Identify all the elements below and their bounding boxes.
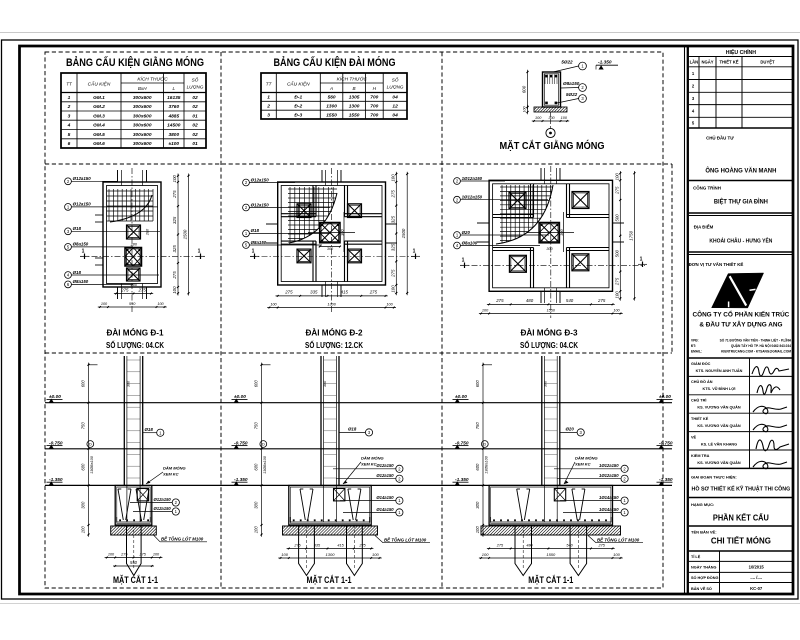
- plan D-3 bottom overall dim: [479, 313, 623, 315]
- svg-text:100: 100: [157, 302, 164, 306]
- svg-text:BẢNG CẤU KIỆN ĐÀI MÓNG: BẢNG CẤU KIỆN ĐÀI MÓNG: [274, 56, 396, 69]
- svg-text:275: 275: [172, 190, 177, 199]
- svg-text:VPĐ:: VPĐ:: [691, 339, 699, 343]
- giang mong bottom dim 100 300 100: [532, 120, 569, 122]
- svg-text:700: 700: [370, 95, 378, 101]
- svg-text:GM.6: GM.6: [93, 141, 105, 147]
- svg-text:100: 100: [153, 552, 160, 556]
- svg-text:100: 100: [561, 116, 568, 120]
- svg-text:275: 275: [614, 186, 619, 195]
- plan D-1 left beam stubs: [95, 214, 103, 216]
- svg-text:GM.2: GM.2: [93, 104, 105, 110]
- svg-text:300: 300: [475, 501, 480, 509]
- svg-text:Ø18: Ø18: [251, 228, 260, 233]
- section left dim chain: [88, 363, 90, 537]
- giang mong axis bubble: [546, 128, 555, 137]
- section 3 callout 1d12a150 b: [557, 478, 621, 480]
- plan D-2 axis lines: [331, 168, 333, 312]
- svg-text:TÊN BẢN VẼ:: TÊN BẢN VẼ:: [691, 530, 717, 535]
- svg-text:KÍCH THƯỚC: KÍCH THƯỚC: [137, 76, 168, 83]
- svg-text:01: 01: [192, 113, 198, 119]
- section 1 callout d18: [143, 432, 157, 434]
- svg-text:275: 275: [293, 543, 301, 547]
- section 3 callout 1d14a150 b: [563, 511, 621, 513]
- plan D-1 beam stubs bottom: [117, 287, 119, 299]
- svg-text:550: 550: [130, 560, 138, 565]
- section left dim chain: [261, 363, 263, 537]
- section giang mong beam stub: [554, 489, 565, 501]
- section 3 callout 1d14a150 a: [560, 500, 621, 502]
- svg-text:5Ø22: 5Ø22: [566, 92, 578, 97]
- svg-text:4: 4: [67, 123, 71, 129]
- svg-text:ĐT:: ĐT:: [691, 344, 696, 348]
- svg-text:540: 540: [566, 543, 573, 547]
- svg-text:Ø14a150: Ø14a150: [376, 507, 394, 512]
- svg-text:500: 500: [614, 249, 619, 257]
- plan D-1 bottom overall dim: [98, 306, 167, 308]
- svg-text:CHI TIẾT MÓNG: CHI TIẾT MÓNG: [711, 535, 771, 546]
- svg-text:100: 100: [172, 175, 177, 183]
- svg-text:DUYỆT: DUYỆT: [760, 60, 775, 65]
- svg-text:BÊ TÔNG LÓT M100: BÊ TÔNG LÓT M100: [384, 537, 427, 542]
- callout 2 stirrup d8a150: [561, 87, 579, 90]
- svg-text:MẶT CẮT 1-1: MẶT CẮT 1-1: [307, 575, 352, 585]
- svg-text:540: 540: [566, 298, 574, 303]
- svg-text:A: A: [329, 86, 333, 91]
- plan D-1 callouts: [65, 178, 72, 185]
- svg-text:D: D: [89, 442, 92, 447]
- svg-text:1Ø12a150: 1Ø12a150: [462, 195, 483, 200]
- svg-text:16135: 16135: [167, 95, 181, 101]
- svg-text:300: 300: [546, 247, 553, 251]
- svg-text:500: 500: [614, 214, 619, 222]
- svg-text:Ø14a150: Ø14a150: [376, 495, 394, 500]
- dashed separator horizontal 2: [45, 352, 672, 354]
- svg-text:3760: 3760: [168, 104, 179, 110]
- svg-text:700: 700: [370, 104, 378, 110]
- svg-text:1500: 1500: [183, 229, 188, 239]
- svg-text:300x600: 300x600: [133, 132, 152, 138]
- section piles: [127, 525, 142, 576]
- svg-text:2: 2: [67, 104, 71, 110]
- section column: [320, 356, 322, 486]
- svg-text:MẶT CẮT GIẰNG MÓNG: MẶT CẮT GIẰNG MÓNG: [500, 139, 605, 152]
- svg-text:600: 600: [254, 380, 259, 388]
- svg-text:13Ø8a100: 13Ø8a100: [485, 455, 489, 474]
- svg-text:01: 01: [192, 141, 198, 147]
- plan D-2 column square: [320, 223, 340, 243]
- svg-text:DẦM MÓNG: DẦM MÓNG: [575, 456, 598, 461]
- page bottom separator line: [0, 603, 800, 605]
- svg-text:415: 415: [337, 543, 344, 547]
- section pad bottom rebar: [491, 521, 611, 523]
- svg-text:600: 600: [254, 463, 259, 471]
- svg-text:100: 100: [390, 174, 395, 182]
- svg-text:1: 1: [68, 95, 71, 101]
- svg-text:480: 480: [526, 298, 534, 303]
- svg-text:1550: 1550: [546, 552, 556, 557]
- svg-text:NGÀY: NGÀY: [701, 60, 713, 65]
- section giang mong beam stub: [137, 489, 148, 501]
- dashed drawing frame: [45, 52, 663, 588]
- plan D-2 bottom overall dim: [267, 307, 396, 309]
- svg-text:100: 100: [613, 552, 620, 557]
- svg-text:KS. VƯƠNG VĂN QUÂN: KS. VƯƠNG VĂN QUÂN: [697, 423, 741, 428]
- plan D-2 callouts: [243, 179, 250, 186]
- svg-text:Đ-3: Đ-3: [294, 112, 302, 118]
- svg-text:300: 300: [560, 229, 564, 236]
- svg-text:BẢN VẼ SỐ: BẢN VẼ SỐ: [691, 586, 712, 591]
- svg-text:600: 600: [475, 380, 480, 388]
- section 2 callout d18: [339, 431, 365, 433]
- plan D-2 corner room brackets: [312, 185, 314, 217]
- svg-text:1300: 1300: [326, 104, 337, 110]
- section piles: [299, 525, 315, 576]
- section 1 bottom dims: [105, 557, 163, 559]
- plan dai mong D-3 pad outline: [489, 180, 612, 291]
- svg-text:3: 3: [68, 113, 71, 119]
- svg-text:Ø8a150: Ø8a150: [73, 279, 89, 284]
- svg-text:TỈ LỆ: TỈ LỆ: [691, 554, 701, 559]
- svg-text:275: 275: [496, 543, 504, 547]
- section pad: [489, 486, 612, 526]
- svg-text:LƯỢNG: LƯỢNG: [387, 85, 404, 90]
- plan D-3 callouts: [454, 178, 461, 185]
- svg-text:XEM KC: XEM KC: [162, 472, 179, 477]
- svg-text:PHẦN KẾT CẤU: PHẦN KẾT CẤU: [713, 513, 769, 523]
- svg-text:100: 100: [172, 286, 177, 294]
- svg-text:300x600: 300x600: [133, 104, 152, 110]
- svg-text:280: 280: [130, 243, 138, 247]
- svg-text:1750: 1750: [628, 230, 633, 240]
- svg-text:HẠNG MỤC:: HẠNG MỤC:: [691, 502, 714, 507]
- svg-text:100: 100: [475, 526, 480, 534]
- svg-text:275: 275: [139, 552, 147, 556]
- svg-text:300: 300: [544, 380, 548, 387]
- svg-text:275: 275: [358, 543, 366, 547]
- svg-text:MẶT CẮT 1-1: MẶT CẮT 1-1: [113, 575, 158, 585]
- svg-text:12: 12: [392, 104, 398, 110]
- svg-text:750: 750: [254, 422, 259, 430]
- svg-text:560: 560: [328, 95, 336, 101]
- svg-text:Ø20: Ø20: [462, 230, 471, 235]
- svg-text:100: 100: [81, 526, 86, 534]
- plan D-2 beam stubs: [321, 170, 323, 182]
- svg-text:THIẾT KẾ: THIẾT KẾ: [719, 60, 738, 65]
- plan dai mong D-1 pad outline: [103, 182, 161, 287]
- svg-text:100: 100: [372, 552, 379, 557]
- svg-text:1305: 1305: [349, 95, 360, 101]
- svg-text:325: 325: [172, 245, 177, 253]
- svg-text:Ø12a150: Ø12a150: [154, 497, 172, 502]
- svg-text:1Ø14a150: 1Ø14a150: [599, 495, 619, 500]
- svg-text:100: 100: [482, 308, 489, 312]
- svg-text:Ø12a150: Ø12a150: [73, 176, 92, 181]
- svg-text:LƯỢNG: LƯỢNG: [187, 85, 204, 90]
- svg-text:NGÀY THÁNG: NGÀY THÁNG: [691, 565, 717, 570]
- section pad: [115, 486, 152, 526]
- section giang mong beam stub: [334, 489, 345, 501]
- svg-text:1300: 1300: [326, 552, 336, 557]
- section chain callout D 13d8a100: [260, 441, 267, 448]
- svg-text:1300: 1300: [327, 302, 336, 306]
- svg-text:550: 550: [129, 302, 136, 306]
- svg-text:100: 100: [281, 552, 288, 557]
- svg-text:KS. LÊ VĂN KHANG: KS. LÊ VĂN KHANG: [701, 441, 737, 446]
- svg-text:MẶT CẮT 1-1: MẶT CẮT 1-1: [528, 575, 573, 585]
- callout 1 5d22 top: [553, 66, 579, 72]
- section column: [541, 356, 543, 486]
- svg-text:300x600: 300x600: [133, 95, 152, 101]
- table bang cau kien dai mong: [261, 73, 407, 119]
- svg-text:HỒ SƠ THIẾT KẾ KỸ THUẬT THI CÔ: HỒ SƠ THIẾT KẾ KỸ THUẬT THI CÔNG: [692, 485, 791, 493]
- elevation line -1.350: [45, 484, 672, 486]
- section 2 callout d14a150 a: [340, 500, 396, 502]
- section 3 bottom dims: [487, 548, 615, 550]
- svg-text:Ø18: Ø18: [73, 270, 82, 275]
- svg-text:KC-07: KC-07: [750, 586, 763, 591]
- svg-text:1Ø12a150: 1Ø12a150: [599, 473, 619, 478]
- svg-text:GM.3: GM.3: [93, 113, 105, 119]
- svg-text:B: B: [353, 86, 356, 91]
- svg-text:Ø12a150: Ø12a150: [376, 473, 394, 478]
- section column: [123, 356, 125, 486]
- svg-text:KIENTRUCANG.COM - KTSANG@GMAIL: KIENTRUCANG.COM - KTSANG@GMAIL.COM: [721, 350, 791, 354]
- svg-text:100: 100: [535, 116, 542, 120]
- svg-text:Ø8a150: Ø8a150: [563, 81, 580, 86]
- plan D-1 overall dim 1500: [188, 174, 190, 296]
- svg-text:SỐ: SỐ: [392, 77, 399, 83]
- svg-text:300: 300: [327, 247, 334, 251]
- section pad bottom rebar: [117, 521, 151, 523]
- svg-text:XEM KC: XEM KC: [360, 462, 377, 467]
- svg-text:04: 04: [392, 95, 398, 101]
- svg-text:280: 280: [130, 283, 138, 287]
- svg-text:ĐÀI MÓNG Đ-1: ĐÀI MÓNG Đ-1: [107, 327, 164, 338]
- svg-text:600: 600: [81, 380, 86, 388]
- svg-text:325: 325: [390, 243, 395, 251]
- svg-text:Ø20: Ø20: [566, 427, 575, 432]
- plan dai mong D-2 pad outline: [278, 182, 386, 285]
- svg-text:275: 275: [369, 290, 378, 295]
- svg-text:Ø8a100: Ø8a100: [462, 240, 478, 245]
- svg-text:GIAI ĐOẠN THỰC HIỆN:: GIAI ĐOẠN THỰC HIỆN:: [691, 475, 737, 480]
- plan D-3 corner room brackets: [530, 184, 532, 218]
- plan D-3 column square: [539, 223, 559, 243]
- svg-text:ĐÀI MÓNG Đ-2: ĐÀI MÓNG Đ-2: [306, 327, 363, 338]
- svg-text:1500: 1500: [401, 228, 406, 238]
- plan D-3 column dim lines: [527, 232, 574, 234]
- svg-text:DẦM MÓNG: DẦM MÓNG: [163, 466, 186, 471]
- svg-text:±100: ±100: [168, 141, 179, 147]
- svg-text:1: 1: [267, 95, 270, 101]
- svg-text:750: 750: [81, 422, 86, 430]
- svg-text:ĐÀI MÓNG Đ-3: ĐÀI MÓNG Đ-3: [521, 327, 578, 338]
- svg-text:D: D: [262, 442, 265, 447]
- svg-text:GM.1: GM.1: [93, 95, 105, 101]
- section left dim chain: [482, 363, 484, 537]
- svg-text:13Ø8a100: 13Ø8a100: [90, 455, 94, 474]
- svg-text:Ø12a150: Ø12a150: [154, 506, 172, 511]
- svg-text:100: 100: [523, 107, 527, 113]
- svg-text:10/2015: 10/2015: [749, 565, 765, 570]
- section 3 callout 1d12a150 a: [554, 468, 621, 470]
- svg-text:275: 275: [172, 271, 177, 280]
- svg-text:100: 100: [482, 552, 489, 557]
- svg-text:CÔNG TRÌNH: CÔNG TRÌNH: [693, 186, 721, 191]
- svg-text:BxH: BxH: [138, 86, 147, 91]
- svg-text:VẼ: VẼ: [691, 434, 697, 439]
- company AV logo: [712, 273, 764, 308]
- svg-text:Ø18: Ø18: [145, 427, 154, 432]
- plan D-3 pile squares: [509, 192, 526, 209]
- svg-text:02: 02: [192, 132, 198, 138]
- svg-text:100: 100: [108, 552, 115, 556]
- svg-text:100: 100: [614, 291, 619, 299]
- svg-text:100: 100: [254, 526, 259, 534]
- dashed separator vertical 1: [220, 52, 222, 588]
- svg-text:BIỆT THỰ GIA ĐÌNH: BIỆT THỰ GIA ĐÌNH: [714, 198, 768, 206]
- svg-text:04: 04: [392, 112, 398, 118]
- svg-text:100: 100: [614, 173, 619, 181]
- svg-text:100: 100: [270, 302, 277, 306]
- svg-text:300: 300: [548, 116, 555, 120]
- svg-text:280: 280: [146, 228, 150, 236]
- section 3 callout d20: [560, 431, 577, 433]
- svg-text:325: 325: [172, 216, 177, 224]
- dashed separator right of plans: [671, 164, 673, 353]
- svg-text:6: 6: [68, 141, 71, 147]
- svg-text:Ø12a150: Ø12a150: [73, 202, 92, 207]
- svg-text:3: 3: [267, 112, 270, 118]
- section 2 callout d14a150 b: [343, 511, 396, 513]
- plan D-2 bottom dim chain: [276, 295, 388, 297]
- svg-text:300x600: 300x600: [133, 123, 152, 129]
- svg-text:335: 335: [314, 543, 321, 547]
- svg-text:-1.350: -1.350: [598, 60, 612, 66]
- svg-text:Ø12a150: Ø12a150: [376, 463, 394, 468]
- plan D-3 right dim chain: [619, 171, 621, 301]
- svg-text:300: 300: [323, 380, 327, 387]
- svg-text:1550: 1550: [547, 308, 556, 312]
- svg-text:LẦN: LẦN: [690, 60, 699, 65]
- svg-text:HIỆU CHỈNH: HIỆU CHỈNH: [726, 48, 757, 56]
- section lot layer: [111, 526, 157, 535]
- table bang cau kien giang mong: [61, 73, 206, 148]
- svg-text:600: 600: [475, 463, 480, 471]
- plan D-1 bottom dim chain: [114, 293, 153, 295]
- svg-text:CHỦ ĐỒ ÁN: CHỦ ĐỒ ÁN: [691, 379, 713, 384]
- svg-text:GIÁM ĐỐC: GIÁM ĐỐC: [691, 361, 711, 366]
- svg-text:275: 275: [597, 298, 606, 303]
- svg-text:275: 275: [598, 543, 606, 547]
- plan D-3 beam stubs: [540, 168, 542, 180]
- giang mong left dim 600: [527, 70, 529, 109]
- section lot layer: [283, 526, 378, 535]
- svg-text:SỐ: SỐ: [192, 77, 199, 83]
- section pad bottom rebar: [290, 521, 369, 523]
- plan D-2 pile squares: [297, 204, 311, 218]
- section piles: [515, 525, 532, 576]
- svg-text:600: 600: [81, 463, 86, 471]
- plan D-1 pile square top: [127, 225, 141, 239]
- plan D-1 axis lines: [131, 168, 133, 312]
- svg-text:SỐ LƯỢNG: 04.CK: SỐ LƯỢNG: 04.CK: [106, 339, 165, 350]
- svg-text:Ø12a150: Ø12a150: [251, 202, 270, 207]
- svg-text:750: 750: [475, 422, 480, 430]
- svg-text:1300: 1300: [349, 104, 360, 110]
- svg-text:KS. VƯƠNG VĂN QUÂN: KS. VƯƠNG VĂN QUÂN: [697, 460, 741, 465]
- plan D-3 bottom dim chain: [487, 303, 615, 305]
- svg-text:300: 300: [126, 380, 130, 387]
- svg-text:BÊ TÔNG LÓT M100: BÊ TÔNG LÓT M100: [161, 537, 204, 542]
- svg-text:4885: 4885: [167, 113, 179, 119]
- svg-text:KIỂM TRA: KIỂM TRA: [691, 453, 710, 458]
- svg-text:SỐ 71 ĐƯỜNG VĂN TIẾN - THỊNH L: SỐ 71 ĐƯỜNG VĂN TIẾN - THỊNH LIỆT - P.LĨ…: [720, 338, 792, 343]
- svg-text:3800: 3800: [168, 132, 179, 138]
- svg-text:1550: 1550: [326, 112, 337, 118]
- plan D-2 right dim chain: [395, 172, 397, 295]
- plan D-1 pile square bottom: [127, 268, 141, 281]
- svg-text:275: 275: [495, 298, 504, 303]
- svg-text:ĐƠN VỊ TƯ VẤN THIẾT KẾ: ĐƠN VỊ TƯ VẤN THIẾT KẾ: [689, 262, 744, 267]
- svg-text:600: 600: [522, 85, 527, 93]
- svg-text:Ø12a150: Ø12a150: [251, 177, 270, 182]
- svg-text:275: 275: [120, 552, 128, 556]
- svg-text:480: 480: [526, 543, 533, 547]
- svg-text:275: 275: [390, 190, 395, 199]
- svg-text:SỐ LƯỢNG: 12.CK: SỐ LƯỢNG: 12.CK: [305, 339, 364, 350]
- svg-text:ĐỊA ĐIỂM: ĐỊA ĐIỂM: [694, 225, 714, 230]
- svg-text:1550: 1550: [349, 112, 360, 118]
- section 2 bottom dims: [287, 548, 374, 550]
- section 1 callout d12a150 b: [133, 511, 172, 513]
- svg-text:100: 100: [101, 302, 108, 306]
- svg-text:DẦM MÓNG: DẦM MÓNG: [361, 456, 384, 461]
- dashed separator vertical 2: [441, 52, 443, 588]
- svg-text:Ø8a150: Ø8a150: [73, 242, 89, 247]
- svg-text:02: 02: [192, 95, 198, 101]
- svg-text:100: 100: [613, 308, 620, 312]
- svg-text:BẢNG CẤU KIỆN GIẰNG MÓNG: BẢNG CẤU KIỆN GIẰNG MÓNG: [66, 56, 204, 69]
- svg-text:275: 275: [138, 287, 147, 292]
- svg-text:415: 415: [341, 290, 349, 295]
- svg-text:CHỦ TRÌ: CHỦ TRÌ: [691, 398, 706, 403]
- svg-text:2: 2: [266, 104, 270, 110]
- svg-text:EMAIL:: EMAIL:: [691, 350, 702, 354]
- callout 3 5d22 bottom: [557, 99, 579, 104]
- svg-text:02: 02: [192, 104, 198, 110]
- svg-text:275: 275: [120, 287, 129, 292]
- elevation line 0.00: [45, 402, 672, 404]
- signature rows: [749, 358, 751, 468]
- svg-text:275: 275: [284, 290, 293, 295]
- svg-text:5: 5: [68, 132, 71, 138]
- section lot layer: [481, 526, 621, 535]
- svg-text:GM.4: GM.4: [93, 123, 105, 129]
- section 2 callout d12a150 a: [333, 468, 396, 470]
- svg-text:SỐ LƯỢNG: 04.CK: SỐ LƯỢNG: 04.CK: [520, 339, 579, 350]
- elevation line -0.750: [45, 448, 672, 450]
- svg-text:.... /....: .... /....: [750, 575, 762, 580]
- svg-text:KHOÁI CHÂU - HƯNG YÊN: KHOÁI CHÂU - HƯNG YÊN: [709, 237, 772, 245]
- svg-text:02: 02: [192, 123, 198, 129]
- svg-text:14500: 14500: [167, 123, 181, 129]
- svg-text:KS. VƯƠNG VĂN QUÂN: KS. VƯƠNG VĂN QUÂN: [697, 405, 741, 410]
- svg-text:SỐ HỢP ĐỒNG: SỐ HỢP ĐỒNG: [691, 575, 718, 580]
- svg-text:KTS. VŨ ĐÌNH LỢI: KTS. VŨ ĐÌNH LỢI: [703, 386, 736, 391]
- plan D-3 overall dim 1750: [633, 171, 635, 301]
